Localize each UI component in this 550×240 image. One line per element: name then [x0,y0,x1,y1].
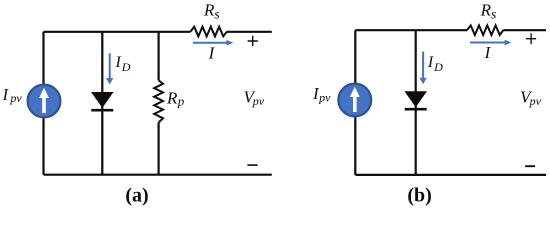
current source Ipv (a) [28,85,61,118]
svg-text:D: D [433,60,443,74]
svg-text:p: p [177,94,185,109]
svg-text:pv: pv [9,91,22,105]
svg-text:s: s [214,8,220,23]
svg-text:R: R [166,89,178,108]
diode D (b) [405,92,427,109]
current arrow ID (a) [106,53,113,84]
wire: top-left segment (b) [355,29,467,31]
svg-text:D: D [121,60,131,74]
svg-text:s: s [491,8,497,23]
wire: bottom rail (a) [44,174,272,176]
svg-text:pv: pv [252,94,265,108]
current source Ipv (b) [338,84,371,117]
svg-text:R: R [203,0,215,19]
wire: top-right segment to + terminal (b) [503,29,546,31]
svg-text:I: I [427,54,434,71]
current arrow I (b) [470,40,511,46]
svg-text:(a): (a) [125,185,148,207]
terminal minus (b) [525,165,535,167]
terminal plus (b) [526,33,536,44]
wire: diode branch vertical (a) [101,32,103,175]
svg-text:(b): (b) [407,185,431,207]
svg-text:pv: pv [318,91,331,105]
diode D (a) [91,93,113,111]
current arrow I (a) [193,40,233,46]
wire: top-right segment to + terminal (a) [227,31,272,33]
wire: diode branch vertical (b) [415,30,417,175]
current arrow ID (b) [420,52,427,85]
terminal plus (a) [248,36,258,47]
svg-text:R: R [480,0,492,19]
wire: left branch vertical (b) [354,30,356,175]
resistor Rs (a) zigzag [191,27,227,37]
wire: bottom rail (b) [355,174,546,176]
resistor Rs (b) zigzag [467,25,503,35]
wire: left branch vertical (a) [42,32,44,175]
svg-text:pv: pv [529,94,542,108]
resistor Rp zigzag [154,80,163,122]
svg-text:I: I [115,54,122,71]
wire: Rp branch top stub (a) [158,32,160,81]
terminal minus (a) [247,164,257,166]
wire: Rp branch bottom stub (a) [158,123,160,175]
wire: top-left segment (a) [44,31,191,33]
